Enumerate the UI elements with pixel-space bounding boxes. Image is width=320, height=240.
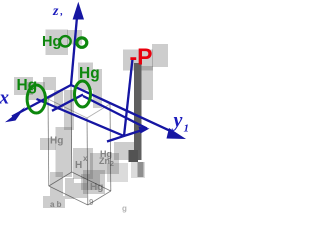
svg-text:Hg: Hg <box>17 77 38 94</box>
svg-text:1: 1 <box>184 123 190 135</box>
svg-text:Hg: Hg <box>42 34 61 50</box>
svg-text:y: y <box>172 110 183 132</box>
svg-text:x: x <box>0 88 10 109</box>
svg-text:Hg: Hg <box>79 65 100 82</box>
svg-text:H: H <box>75 160 82 171</box>
svg-text:-P: -P <box>130 44 153 70</box>
svg-text:z: z <box>52 4 59 19</box>
svg-text:a b: a b <box>50 200 62 209</box>
svg-text:g: g <box>122 204 127 213</box>
svg-text:Hg: Hg <box>90 182 103 193</box>
svg-text:Hg: Hg <box>50 136 63 147</box>
svg-text:,: , <box>60 7 64 18</box>
